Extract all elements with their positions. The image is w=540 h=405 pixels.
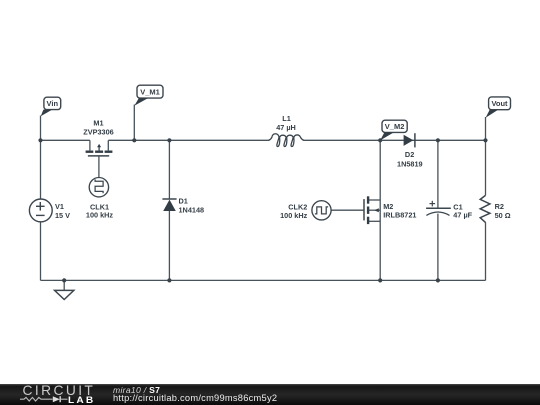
svg-text:V_M2: V_M2	[385, 122, 405, 131]
svg-text:15 V: 15 V	[55, 211, 70, 220]
svg-text:V1: V1	[55, 202, 64, 211]
svg-text:IRLB8721: IRLB8721	[383, 211, 416, 220]
svg-text:47 µH: 47 µH	[276, 123, 296, 132]
svg-text:R2: R2	[495, 202, 504, 211]
svg-text:1N4148: 1N4148	[179, 205, 205, 214]
svg-text:Vin: Vin	[47, 99, 59, 108]
svg-text:100 kHz: 100 kHz	[280, 211, 308, 220]
svg-text:D2: D2	[405, 150, 414, 159]
svg-text:50 Ω: 50 Ω	[495, 211, 511, 220]
svg-text:1N5819: 1N5819	[397, 159, 423, 168]
svg-text:L1: L1	[282, 114, 291, 123]
svg-text:Vout: Vout	[491, 99, 508, 108]
svg-text:ZVP3306: ZVP3306	[83, 128, 113, 137]
svg-text:M1: M1	[93, 118, 103, 127]
svg-text:D1: D1	[179, 197, 188, 206]
svg-text:V_M1: V_M1	[140, 88, 160, 97]
svg-text:100 kHz: 100 kHz	[86, 211, 114, 220]
svg-text:47 µF: 47 µF	[453, 211, 472, 220]
